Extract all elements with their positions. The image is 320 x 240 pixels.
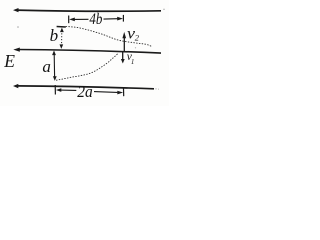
svg-text:a: a	[42, 57, 51, 76]
svg-text:4b: 4b	[89, 11, 102, 28]
svg-text:E: E	[3, 51, 15, 71]
svg-text:2: 2	[135, 33, 140, 43]
svg-text:b: b	[50, 26, 59, 45]
svg-text:2a: 2a	[77, 82, 93, 101]
svg-text:1: 1	[131, 58, 135, 66]
